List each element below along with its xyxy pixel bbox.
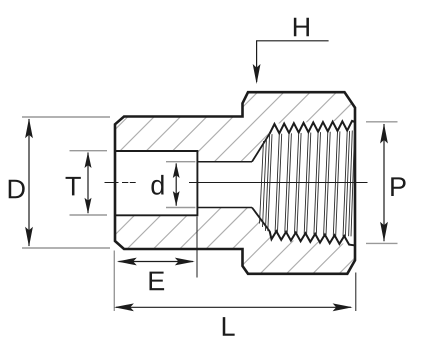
dim E arrow line [119, 261, 194, 263]
dim D ticks [22, 117, 110, 248]
dim L arrow line [116, 306, 351, 308]
dim T arrow line [87, 153, 89, 214]
dim d arrow line [175, 163, 177, 205]
dim L extension right [355, 273, 357, 312]
dim H leader [257, 41, 329, 82]
dim P ticks [366, 122, 398, 244]
thread flank striations [260, 130, 355, 236]
label d [151, 175, 163, 195]
label H [294, 18, 309, 37]
dim E extensions [113, 251, 115, 312]
centerline [105, 182, 368, 184]
dim T ticks [70, 151, 108, 215]
socket counterbore [115, 150, 197, 216]
body outline [115, 92, 355, 274]
dim D arrow line [28, 119, 30, 246]
label P [391, 177, 405, 196]
tube bore walls [197, 162, 252, 208]
dim P arrow line [383, 124, 385, 241]
hatching (section fill) [0, 88, 425, 278]
label T [66, 177, 81, 196]
label D [9, 180, 25, 199]
thread crest sawtooth bottom [270, 231, 355, 245]
drill cone [252, 134, 270, 232]
label L [223, 317, 235, 336]
thread crest sawtooth top [270, 121, 355, 134]
label E [149, 272, 164, 291]
dim d ticks [166, 162, 195, 208]
